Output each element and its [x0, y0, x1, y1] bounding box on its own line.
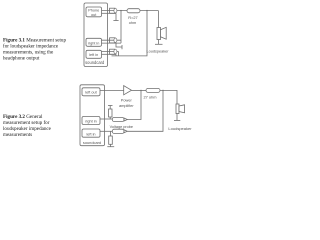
- svg-text:right in: right in: [88, 41, 99, 45]
- left out box: [82, 88, 100, 96]
- loudspeaker cone (fig 3.2): [179, 105, 185, 113]
- ground bar (phone out): [113, 20, 118, 22]
- resistor R=27 ohm (fig 3.1): [127, 9, 140, 13]
- svg-text:headphone output: headphone output: [3, 55, 40, 61]
- right in box (fig 3.2): [82, 117, 100, 125]
- caption Figure 3.2: [3, 114, 52, 138]
- phone out box: [86, 7, 102, 17]
- wire terminal to resistor R1: [109, 106, 111, 110]
- svg-text:left out: left out: [85, 91, 97, 95]
- voltage probe 2 body: [112, 129, 124, 133]
- svg-text:amplifier: amplifier: [119, 103, 134, 108]
- resistor 27 ohm (fig 3.2): [146, 88, 160, 92]
- svg-text:Voltage probe: Voltage probe: [110, 125, 133, 129]
- wire right-in hot: [102, 39, 122, 41]
- jack plug tip (right in): [114, 38, 117, 42]
- jack plug tip (phone out): [114, 8, 117, 12]
- svg-text:ohm: ohm: [129, 20, 137, 25]
- right in box: [86, 38, 102, 46]
- stub left-in hot to return line: [118, 52, 120, 56]
- svg-text:soundcard: soundcard: [83, 140, 101, 145]
- resistor R1 (vertical, right-in branch): [109, 109, 113, 117]
- left in box (fig 3.2): [82, 129, 100, 137]
- junction resistor output: [162, 90, 163, 91]
- power amplifier triangle U1: [124, 86, 132, 95]
- svg-text:Power: Power: [121, 98, 133, 103]
- wire left-in to probe 2: [100, 130, 112, 132]
- wire left-in return: [102, 53, 117, 55]
- ground bar loudspeaker (fig 3.1): [155, 43, 163, 45]
- wire loudspeaker ground (fig 3.2): [176, 114, 178, 121]
- wire right-in return: [102, 42, 122, 44]
- loudspeaker cone (fig 3.1): [161, 27, 167, 39]
- wire to loudspeaker (fig 3.1): [158, 11, 160, 28]
- soundcard enclosure (fig 3.2): [80, 85, 105, 146]
- svg-text:Loudspeaker: Loudspeaker: [147, 49, 170, 53]
- ground bar resistor R2: [107, 146, 114, 148]
- jack plug body (left in): [110, 49, 115, 54]
- svg-text:measurements: measurements: [3, 132, 32, 138]
- junction amplifier output: [140, 90, 141, 91]
- svg-text:for loudspeaker impedance: for loudspeaker impedance: [3, 42, 59, 49]
- wire node A to right-in: [120, 11, 122, 44]
- ground drop (left in): [115, 54, 117, 56]
- wire phone-out hot: [102, 10, 159, 12]
- node B junction: [146, 10, 147, 11]
- wire probe 2 to loudspeaker node: [127, 90, 163, 131]
- wire probe 1 to amplifier output: [127, 90, 141, 119]
- jack plug tip (left in): [114, 49, 117, 53]
- wire left-out to amplifier: [100, 89, 124, 91]
- svg-text:left in: left in: [89, 53, 98, 57]
- ground drop (phone out): [115, 13, 117, 20]
- terminal bar resistor R1 (probe branch): [108, 105, 113, 107]
- svg-text:measurement setup for: measurement setup for: [3, 119, 50, 126]
- loudspeaker driver (fig 3.1): [157, 28, 161, 40]
- left in box (fig 3.1): [86, 50, 102, 58]
- wire resistor to loudspeaker: [160, 90, 177, 104]
- voltage probe 1 tip: [124, 118, 127, 121]
- voltage probe 2 tip: [124, 130, 127, 133]
- voltage probe 1 body: [112, 118, 124, 122]
- wire phone-out return: [102, 12, 117, 14]
- jack plug body (phone out): [110, 8, 115, 13]
- wire loudspeaker ground (fig 3.1): [158, 40, 160, 45]
- ground tick (right in): [121, 45, 123, 49]
- wire right-in to probe 1: [100, 118, 112, 120]
- wire amplifier output: [132, 89, 147, 91]
- node A junction: [120, 10, 121, 11]
- svg-text:Loudspeaker: Loudspeaker: [168, 126, 192, 131]
- svg-text:soundcard: soundcard: [85, 60, 105, 65]
- ground drop (right in): [116, 43, 122, 47]
- loudspeaker driver (fig 3.2): [176, 104, 179, 114]
- svg-text:left in: left in: [86, 133, 95, 137]
- svg-text:27 ohm: 27 ohm: [144, 94, 157, 99]
- svg-text:right in: right in: [85, 119, 96, 123]
- wire node B return: [112, 11, 148, 56]
- resistor R2 (vertical, left-in branch): [109, 136, 113, 144]
- soundcard enclosure (fig 3.1): [84, 3, 108, 67]
- wire resistor R1 to right-in wire: [109, 117, 111, 119]
- wire left-in junction to resistor R2: [110, 131, 112, 136]
- ground bar loudspeaker (fig 3.2): [174, 119, 180, 121]
- jack plug body (right in): [110, 38, 115, 43]
- wire left-in hot: [102, 51, 119, 53]
- wire resistor R2 to ground: [110, 144, 112, 146]
- caption Figure 3.1: [3, 37, 66, 61]
